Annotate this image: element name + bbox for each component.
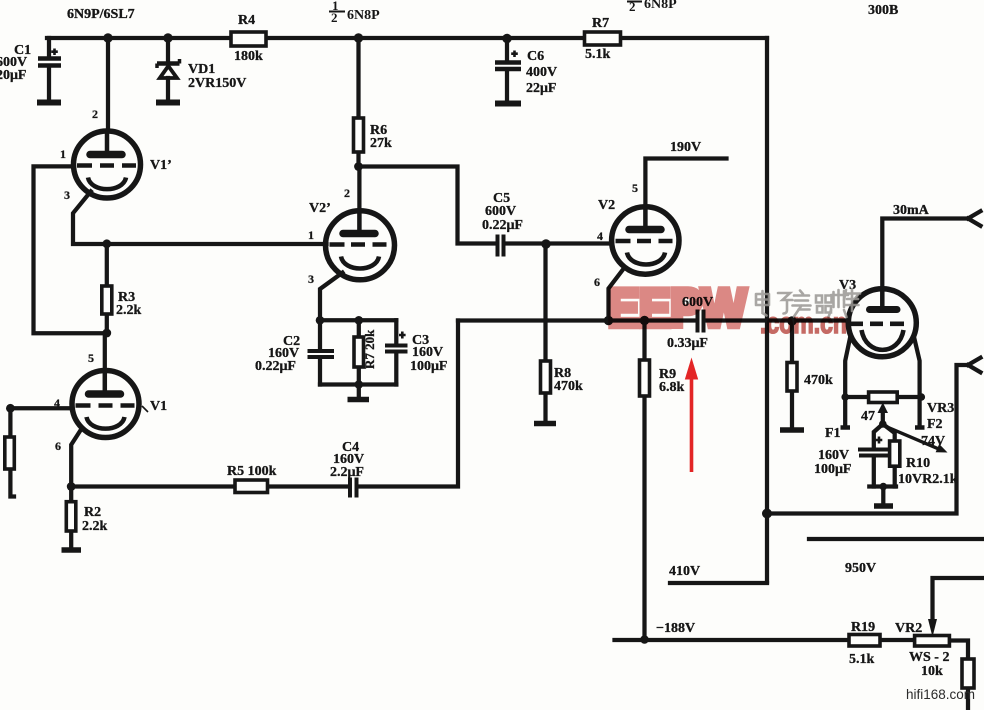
svg-text:R5 100k: R5 100k — [227, 464, 277, 479]
svg-text:6: 6 — [55, 439, 61, 453]
svg-text:0.22μF: 0.22μF — [255, 359, 296, 374]
svg-text:20μF: 20μF — [0, 68, 27, 83]
svg-text:V1’: V1’ — [150, 158, 172, 173]
svg-text:950V: 950V — [845, 561, 876, 576]
svg-text:2: 2 — [344, 186, 350, 200]
svg-text:160V: 160V — [818, 448, 849, 463]
svg-text:1: 1 — [308, 228, 314, 242]
svg-text:F1: F1 — [825, 426, 841, 441]
svg-text:180k: 180k — [234, 49, 263, 64]
svg-text:V1: V1 — [150, 399, 167, 414]
svg-text:VR3: VR3 — [927, 401, 954, 416]
svg-text:10VR2.1k: 10VR2.1k — [898, 472, 958, 487]
svg-text:470k: 470k — [554, 379, 583, 394]
svg-text:R7: R7 — [592, 16, 609, 31]
svg-text:2: 2 — [92, 107, 98, 121]
svg-text:R2: R2 — [84, 505, 101, 520]
svg-text:3: 3 — [308, 272, 314, 286]
svg-text:600V: 600V — [485, 204, 516, 219]
svg-text:1: 1 — [60, 147, 66, 161]
svg-text:160V: 160V — [412, 345, 443, 360]
svg-text:410V: 410V — [669, 564, 700, 579]
svg-text:.com.cn: .com.cn — [760, 307, 847, 340]
svg-text:VR2: VR2 — [895, 621, 922, 636]
svg-text:74V: 74V — [921, 434, 945, 449]
svg-text:190V: 190V — [670, 140, 701, 155]
svg-text:0.33μF: 0.33μF — [667, 336, 708, 351]
svg-text:R7 20k: R7 20k — [362, 329, 377, 369]
svg-text:27k: 27k — [370, 136, 392, 151]
svg-text:V2’: V2’ — [309, 201, 331, 216]
svg-text:6: 6 — [594, 275, 600, 289]
svg-text:4: 4 — [54, 396, 60, 410]
svg-text:100μF: 100μF — [410, 359, 448, 374]
svg-text:2.2μF: 2.2μF — [330, 465, 364, 480]
svg-text:hifi168.com: hifi168.com — [906, 687, 975, 702]
svg-text:6N8P: 6N8P — [644, 0, 677, 12]
svg-text:2VR150V: 2VR150V — [188, 76, 246, 91]
svg-text:22μF: 22μF — [526, 81, 557, 96]
svg-text:470k: 470k — [804, 373, 833, 388]
svg-text:F2: F2 — [927, 417, 943, 432]
svg-text:5: 5 — [632, 181, 638, 195]
svg-text:−188V: −188V — [656, 621, 695, 636]
svg-text:R19: R19 — [851, 620, 875, 635]
svg-text:47: 47 — [861, 409, 875, 424]
svg-text:4: 4 — [597, 229, 603, 243]
svg-text:R4: R4 — [238, 13, 255, 28]
svg-text:400V: 400V — [526, 65, 557, 80]
svg-text:2.2k: 2.2k — [82, 519, 108, 534]
svg-text:3: 3 — [64, 188, 70, 202]
svg-text:6N9P/6SL7: 6N9P/6SL7 — [67, 7, 135, 22]
svg-text:6.8k: 6.8k — [659, 380, 685, 395]
svg-text:10k: 10k — [921, 664, 943, 679]
svg-text:VD1: VD1 — [188, 62, 215, 77]
svg-text:100μF: 100μF — [814, 462, 852, 477]
svg-text:V3: V3 — [839, 278, 856, 293]
svg-text:R10: R10 — [906, 456, 930, 471]
svg-text:V2: V2 — [598, 198, 615, 213]
svg-text:30mA: 30mA — [893, 203, 930, 218]
svg-text:WS - 2: WS - 2 — [909, 650, 949, 665]
svg-text:5: 5 — [88, 351, 94, 365]
svg-text:5.1k: 5.1k — [849, 652, 875, 667]
svg-text:5.1k: 5.1k — [585, 47, 611, 62]
svg-text:2.2k: 2.2k — [116, 303, 142, 318]
svg-text:6N8P: 6N8P — [347, 8, 380, 23]
svg-text:C6: C6 — [527, 49, 544, 64]
svg-text:300B: 300B — [868, 3, 898, 18]
svg-text:EEPW: EEPW — [608, 279, 746, 338]
svg-text:0.22μF: 0.22μF — [482, 218, 523, 233]
